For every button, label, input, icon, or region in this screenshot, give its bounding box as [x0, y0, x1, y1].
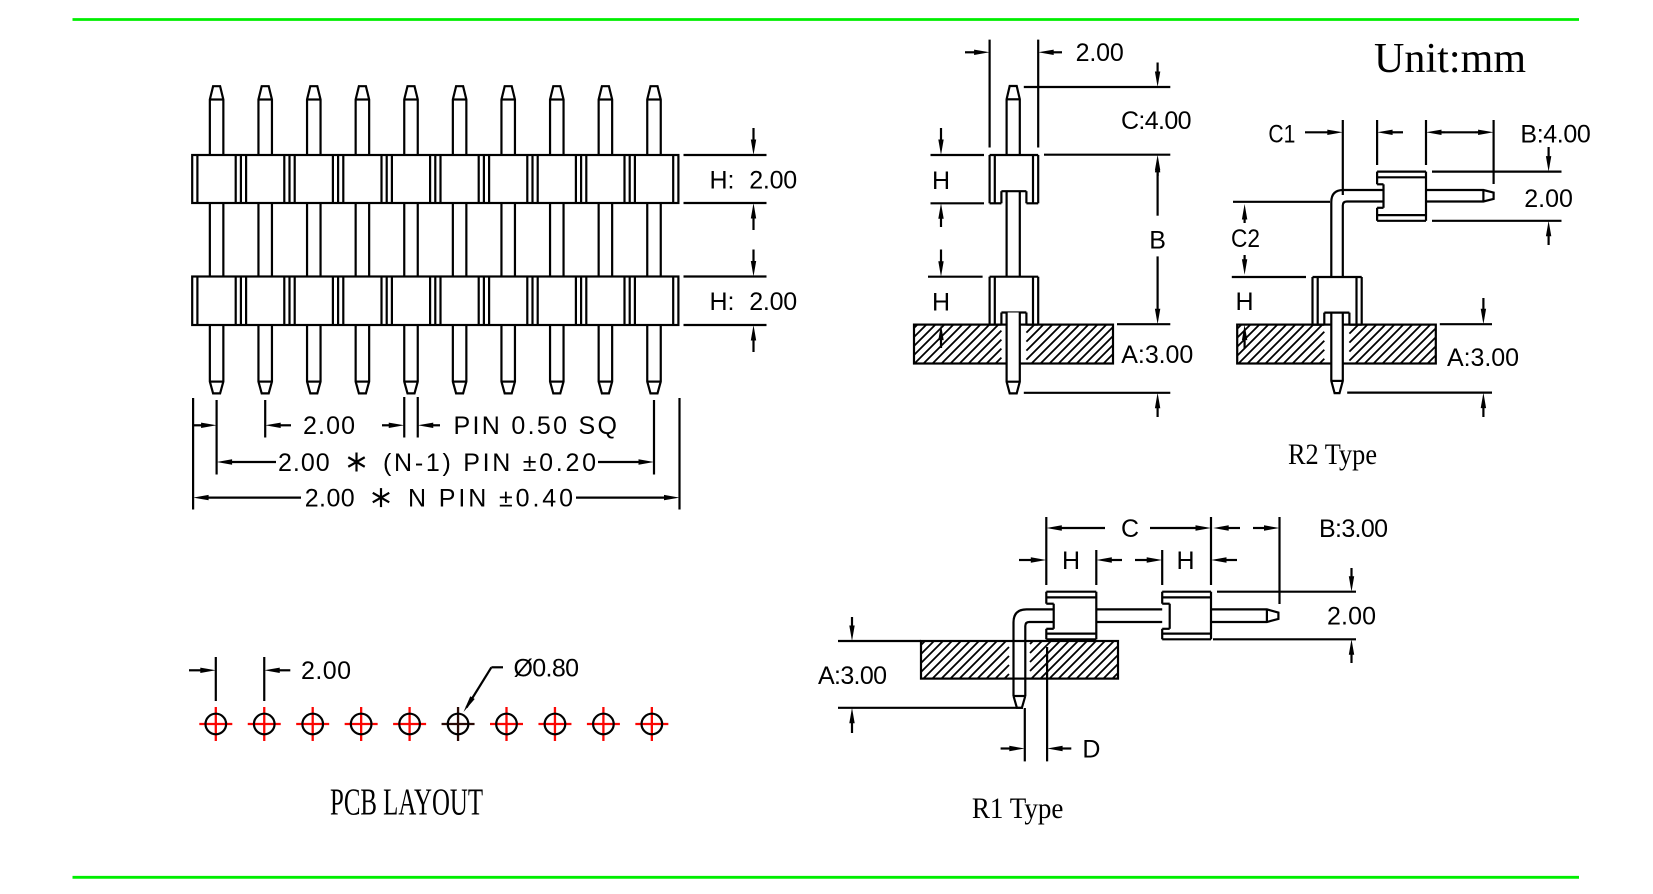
front view: pin 9 [599, 86, 613, 393]
S-type: middle pin segment [1007, 191, 1020, 277]
front view: pin 3 [307, 86, 321, 393]
svg-text:A:3.00: A:3.00 [818, 662, 887, 690]
svg-text:A:3.00: A:3.00 [1121, 341, 1193, 369]
svg-text:2.00: 2.00 [305, 485, 355, 513]
dimension 2.00 * (N-1) PIN ±0.20 [217, 449, 654, 477]
svg-text:2.00: 2.00 [301, 657, 351, 685]
S-type: upper insulator block [990, 155, 1039, 203]
dimension A:3.00 (S-type) [1024, 341, 1194, 417]
pad 2 [248, 707, 281, 741]
dimension 2.00 (pin pitch) [193, 412, 355, 440]
front view: pin 6 [453, 86, 467, 393]
S-type: PCB (hatched) [914, 325, 1113, 364]
pad 3 [296, 707, 329, 741]
dimension A:3.00 (R1) [818, 617, 1023, 733]
R2-type: PCB (hatched) [1237, 325, 1436, 364]
extension line: pin2 center [264, 400, 266, 438]
pad 9 [587, 707, 620, 741]
front view: pin 10 [647, 86, 661, 393]
svg-text:R1 Type: R1 Type [972, 792, 1064, 825]
S-type: lower insulator block [990, 277, 1039, 325]
svg-text:2.00: 2.00 [278, 449, 330, 477]
R1-type: insulator block 1 [1046, 592, 1096, 640]
R2-type: bent pin [1331, 190, 1383, 393]
svg-text:R2 Type: R2 Type [1288, 438, 1377, 471]
svg-text:H: H [932, 289, 950, 317]
dimension 2.00 (R1 block height) [1213, 568, 1376, 663]
svg-text:C2: C2 [1231, 225, 1260, 253]
dimension 2.00 (pad pitch) [189, 657, 351, 701]
front view: pin 4 [356, 86, 370, 393]
pad 1 [199, 707, 232, 741]
R2-type: horizontal pin tip [1426, 190, 1494, 202]
dimension B (S-type post height) [1117, 157, 1170, 324]
front view: insulator bar 1 [192, 155, 678, 203]
extension line: left outer [192, 398, 194, 510]
svg-text:H: H [1176, 547, 1194, 575]
front view: pin 2 [258, 86, 272, 393]
svg-text:2.00: 2.00 [749, 167, 797, 195]
front view: insulator bar 2 [192, 277, 678, 326]
dimension H (S-type upper block) [931, 128, 985, 227]
front view: pin 7 [501, 86, 515, 393]
dimension C (R1) [1046, 515, 1211, 585]
svg-text:PCB LAYOUT: PCB LAYOUT [330, 782, 483, 824]
bottom green border line [73, 876, 1580, 879]
dimension B:3.00 (R1 pin length) [1213, 515, 1388, 604]
extension lines: pin5 edges [404, 397, 418, 438]
R2-type: lower insulator block [1313, 277, 1362, 325]
top green border line [73, 18, 1580, 21]
svg-text:B:3.00: B:3.00 [1319, 515, 1388, 543]
dimension 2.00 (S-type block width) [965, 39, 1124, 147]
svg-text:A:3.00: A:3.00 [1447, 344, 1519, 372]
svg-text:D: D [1082, 736, 1100, 764]
front view: pin 5 [404, 86, 418, 393]
svg-text:B: B [1149, 227, 1166, 255]
dimension H: 2.00 (bar 1 height) [684, 128, 798, 230]
svg-text:C: C [1121, 515, 1139, 543]
dimension H (R2 lower block) [1235, 288, 1253, 348]
R1-type: bent pin [1014, 609, 1054, 707]
svg-text:H: H [1235, 288, 1253, 316]
extension line: pin1 center [216, 400, 218, 475]
svg-text:N PIN ±0.40: N PIN ±0.40 [408, 485, 573, 513]
dimension H (R1 block 2) [1135, 547, 1237, 585]
dimension H (S-type lower block) [928, 250, 983, 349]
svg-text:2.00: 2.00 [1327, 603, 1376, 631]
S-type: top pin [1007, 86, 1020, 155]
svg-text:Ø0.80: Ø0.80 [514, 654, 580, 682]
svg-text:C1: C1 [1268, 121, 1295, 149]
extension line: right outer [678, 398, 680, 510]
pad 5 [393, 707, 426, 741]
dimension H (R1 block 1) [1019, 547, 1122, 585]
dimension B:4.00 (R2 pin length) [1426, 120, 1591, 184]
front view: pin 1 [210, 86, 224, 393]
pad 7 [490, 707, 523, 741]
svg-text:B:4.00: B:4.00 [1520, 121, 1590, 149]
svg-text:H: H [1062, 547, 1080, 575]
R2-type: insulator block (on pin) [1377, 172, 1426, 221]
R1-type: pin segment between blocks [1096, 609, 1162, 622]
front view: pin 8 [550, 86, 564, 393]
pad 4 [345, 707, 378, 741]
dimension 2.00 (R2 block height) [1432, 147, 1573, 245]
svg-text:H:: H: [710, 288, 735, 316]
pad 8 [538, 707, 571, 741]
extension line: pin10 center [653, 400, 655, 475]
svg-text:2.00: 2.00 [1524, 185, 1573, 213]
dimension C2 (R2) [1231, 202, 1330, 277]
svg-text:H: H [932, 167, 950, 195]
dimension A:3.00 (R2) [1347, 298, 1519, 417]
dimension H: 2.00 (bar 2 height) [684, 250, 798, 353]
dimension D (R1) [1001, 647, 1101, 764]
svg-text:2.00: 2.00 [303, 412, 355, 440]
dimension C:4.00 (S-type) [1024, 63, 1192, 177]
R1-type: pin tip [1211, 609, 1278, 622]
pad 10 [635, 707, 668, 741]
dimension PIN 0.50 SQ [382, 412, 617, 440]
R1-type: PCB (hatched) [921, 641, 1118, 679]
R1-type: insulator block 2 [1162, 592, 1211, 640]
leader Ø0.80 [464, 654, 580, 712]
pad 6 (leader target, dark crosshair) [442, 707, 475, 741]
dimension C1 (R2) [1268, 120, 1403, 195]
svg-text:2.00: 2.00 [749, 288, 797, 316]
S-type: bottom pin through PCB [1007, 313, 1020, 394]
dimension 2.00 * N PIN ±0.40 [193, 485, 679, 513]
svg-text:C:4.00: C:4.00 [1121, 107, 1192, 135]
svg-text:Unit:mm: Unit:mm [1374, 36, 1526, 82]
svg-text:H:: H: [710, 167, 735, 195]
svg-text:2.00: 2.00 [1076, 39, 1124, 67]
